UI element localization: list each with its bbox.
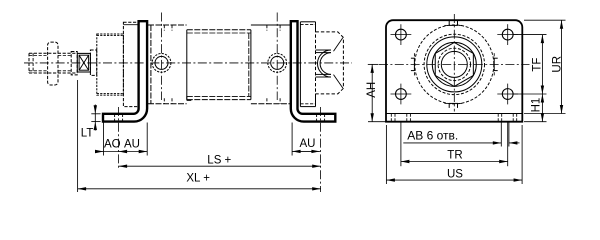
H1 extension line <box>524 121 547 123</box>
tie-rod notch right <box>493 58 495 71</box>
rod end chamfer <box>32 53 34 73</box>
rod lock nut <box>48 42 58 85</box>
cap circle <box>427 37 482 92</box>
AU extension line (front) <box>146 123 148 156</box>
rear eye mount outline <box>316 32 344 94</box>
tie-rod notch top <box>449 24 458 26</box>
rear foot mounting hole (hidden) <box>316 114 318 122</box>
svg-text:UR: UR <box>552 56 564 73</box>
LT extension ticks <box>91 113 100 115</box>
rear eye socket top lines <box>316 49 331 51</box>
AO extension line <box>103 123 105 156</box>
TR dimension <box>401 161 508 163</box>
rear foot bolt centerline <box>320 107 322 192</box>
AH bottom extension <box>368 121 386 123</box>
view horizontal centerline <box>379 63 530 65</box>
H1 dimension <box>541 94 543 122</box>
rod thread circle (hidden) <box>438 48 470 80</box>
svg-text:TR: TR <box>447 150 462 162</box>
svg-text:AU: AU <box>124 138 140 150</box>
front foot bracket (thick L-profile) <box>103 21 147 121</box>
rear AU extension line <box>291 123 293 156</box>
rear port circle <box>268 54 287 73</box>
TF dimension <box>541 35 543 94</box>
rod nut hexagon <box>435 42 473 86</box>
US dimension <box>386 179 522 181</box>
front port circle <box>152 54 171 73</box>
rear cap plate <box>299 22 301 107</box>
corner bolt hole bottom-left <box>396 89 407 100</box>
rear eye chamfer diagonals <box>334 38 343 51</box>
band holes right <box>497 114 499 122</box>
svg-text:AO: AO <box>104 138 121 150</box>
svg-text:AH: AH <box>366 82 378 98</box>
flange plate outline (front view) <box>386 20 522 122</box>
corner bolt hole bottom-right <box>502 89 513 100</box>
AH centerline tick <box>368 63 379 65</box>
svg-text:LS +: LS + <box>207 155 231 167</box>
svg-text:XL +: XL + <box>186 173 210 185</box>
TR extension lines <box>400 123 402 167</box>
TF extension lines <box>514 34 547 36</box>
LT dimension line and arrows <box>94 105 96 131</box>
nut circumscribed circle <box>432 42 476 86</box>
corner bolt hole top-left <box>396 29 407 40</box>
rear eye socket bottom lines <box>316 76 331 78</box>
rod outer diameter lines <box>29 52 77 54</box>
foot band top line <box>386 113 522 115</box>
rod end face <box>28 53 30 73</box>
front foot mounting hole (hidden) <box>114 114 116 122</box>
cylinder tube <box>186 30 188 100</box>
rod boss at gland <box>90 50 96 75</box>
tube/cap joint line <box>248 33 250 96</box>
gland bushing <box>97 34 124 95</box>
rear eye socket outer arc <box>318 50 332 77</box>
view vertical centerline <box>453 14 455 112</box>
AB dimension leader <box>403 142 501 144</box>
rod collar <box>71 52 77 75</box>
rod wrench flats (square with X) <box>77 53 90 72</box>
cylinder outline circle (hidden) <box>415 25 494 104</box>
rear foot bracket (thick L-profile) <box>291 21 336 121</box>
rear cap body <box>251 24 291 26</box>
corner bolt hole top-right <box>502 29 513 40</box>
cap boss circle (hidden) <box>424 34 484 94</box>
front cap body <box>150 25 152 104</box>
XL+ dimension <box>78 188 321 190</box>
svg-text:H1: H1 <box>531 98 543 113</box>
rear AU dimension <box>292 150 320 152</box>
rod circle <box>441 51 467 77</box>
rod thread root lines section 1 <box>29 54 48 56</box>
wire: main horizontal centerline of side view <box>24 62 352 64</box>
svg-text:AU: AU <box>300 138 316 150</box>
rear eye socket inner arc <box>320 53 331 75</box>
svg-text:TF: TF <box>531 58 543 72</box>
front port centerline <box>161 13 163 101</box>
band holes left <box>390 114 392 122</box>
AO AU dimension line <box>95 151 147 153</box>
rear port centerline <box>276 13 278 101</box>
svg-text:АВ 6 отв.: АВ 6 отв. <box>407 129 458 143</box>
UR dimension <box>561 20 563 113</box>
UR extension lines <box>524 19 566 21</box>
tube end step <box>186 96 188 100</box>
AH dimension line <box>371 64 373 121</box>
rear port boss hidden lines <box>266 25 268 31</box>
US extension lines <box>385 125 387 184</box>
rod thread root lines section 2 <box>58 54 71 56</box>
svg-text:US: US <box>447 168 463 180</box>
front cap flange plate <box>123 22 138 106</box>
XL left extension line <box>77 80 79 192</box>
svg-text:LT: LT <box>81 127 94 139</box>
AB extension lines <box>500 123 502 147</box>
tie-rod notch bottom <box>449 102 458 104</box>
front port boss hidden lines <box>163 25 165 31</box>
LS+ dimension <box>119 165 321 167</box>
front foot bolt centerline <box>118 107 120 170</box>
tie-rod notch left <box>413 58 415 71</box>
